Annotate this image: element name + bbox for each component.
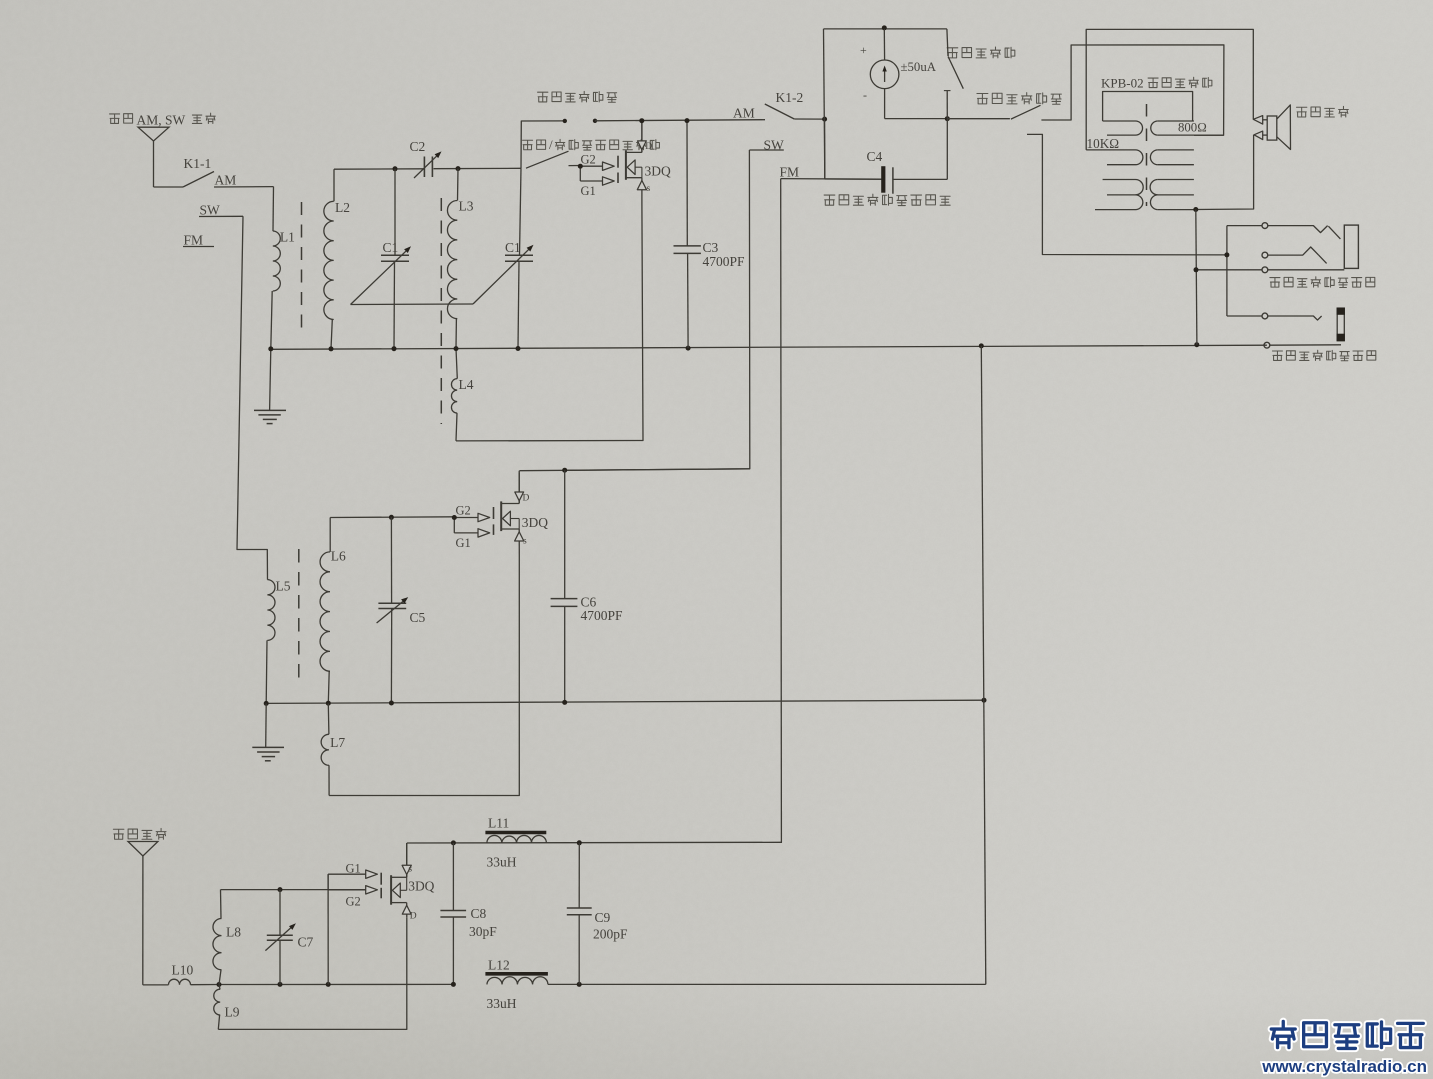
svg-text:10KΩ: 10KΩ: [1087, 136, 1120, 151]
capacitor C1 (b, tuning gang): [473, 168, 534, 348]
wire meter bottom: [885, 118, 948, 120]
wire SW band to L5: [237, 216, 268, 579]
transformer T1 top bracket: [1103, 92, 1193, 122]
svg-text:FM: FM: [184, 233, 204, 248]
wire switch contact to gates Q1: [569, 165, 581, 167]
node C3 top junction: [685, 118, 690, 123]
wire meter box top: [824, 28, 947, 30]
label telescopic antenna: [113, 828, 166, 839]
label nonpolar audio coupling cap: [824, 194, 950, 205]
wire L1 to ground bus: [271, 291, 272, 349]
wire AM to L1: [272, 187, 275, 231]
svg-text:G1: G1: [581, 184, 596, 198]
node C7 top junction: [278, 887, 283, 892]
inductor L6: [320, 518, 346, 704]
node bus junction x331: [329, 346, 334, 351]
wire Q2 drain line: [519, 469, 749, 471]
node stage2 ground junction x391: [389, 701, 394, 706]
node C8 bottom junction: [451, 982, 456, 987]
svg-text:G2: G2: [346, 895, 361, 909]
node bus junction x1196: [1194, 342, 1199, 347]
inductor L10: [169, 963, 194, 985]
wire output switch lower contact to jacks: [1027, 134, 1227, 255]
svg-text:33uH: 33uH: [487, 996, 517, 1011]
svg-text:4700PF: 4700PF: [703, 254, 746, 269]
node bus junction x688: [686, 346, 691, 351]
jack J2 earphone: [1268, 308, 1345, 342]
wire jack2 feed: [1227, 315, 1262, 317]
node secondary bottom junction: [1193, 207, 1198, 212]
watermark crystalradio logo: [1271, 1021, 1423, 1048]
svg-text:SW: SW: [200, 203, 221, 218]
wire G1 to ground: [327, 874, 329, 984]
node jack feed junction: [1224, 252, 1229, 257]
svg-text:FM: FM: [780, 165, 800, 180]
inductor L9: [214, 985, 240, 1030]
wire L6 top to gates Q2: [330, 516, 455, 519]
node meter top junction: [882, 25, 887, 30]
watermark url: [1261, 1057, 1427, 1076]
wire bus to earphone jack: [1270, 344, 1341, 346]
label external crystal interface: [538, 91, 617, 102]
svg-text:K1-1: K1-1: [184, 156, 212, 171]
wire meter box left: [824, 29, 825, 179]
svg-text:L7: L7: [330, 735, 345, 750]
svg-text:L3: L3: [459, 199, 474, 214]
wire jack1 sleeve feed: [1196, 269, 1262, 271]
transistor Q1 3DQ: [578, 121, 671, 203]
inductor L12: [485, 958, 548, 1012]
node junction C1a top: [393, 166, 398, 171]
svg-text:L8: L8: [226, 925, 241, 940]
label external active speaker jack: [1270, 277, 1375, 288]
wire stage2 ground line: [266, 700, 984, 703]
wire L12 to output vertical: [548, 983, 986, 985]
svg-text:K1-2: K1-2: [776, 90, 804, 105]
node FM contact K1-1: [183, 233, 214, 248]
wire main ground bus: [271, 345, 1267, 349]
wire transformer outline loop lower: [1196, 135, 1254, 210]
node C8 top junction: [451, 840, 456, 845]
wire Q2 source to L7 tap: [329, 555, 519, 796]
node SW contact K1-2: [749, 138, 784, 153]
svg-text:C1: C1: [383, 240, 399, 255]
capacitor C4: [825, 119, 948, 194]
transistor Q3 3DQ: [328, 843, 435, 922]
inductor L1: [273, 230, 295, 292]
node C7 bottom junction: [278, 982, 283, 987]
wire antenna to L10: [143, 984, 169, 986]
svg-text:3DQ: 3DQ: [645, 164, 671, 179]
capacitor C9: [567, 843, 628, 985]
wire jack feed vertical: [1226, 226, 1228, 316]
svg-text:s: s: [408, 865, 412, 875]
node C5 top junction: [389, 515, 394, 520]
inductor L3: [447, 169, 473, 349]
node meter output junction: [945, 116, 950, 121]
wire antenna to switch: [154, 186, 184, 188]
wire tank to AM output line: [521, 121, 565, 168]
switch K1-2 arm: [765, 104, 825, 119]
inductor L8: [213, 890, 241, 985]
wire meter to output switch: [947, 118, 1010, 120]
svg-text:33uH: 33uH: [487, 855, 517, 870]
wire tank top line right: [434, 167, 522, 169]
capacitor C3: [674, 121, 746, 349]
antenna ANT1: [138, 127, 169, 187]
wire L4 bottom to Q1 source: [456, 203, 643, 441]
node K1-2 common junction: [822, 117, 827, 122]
core dash line L1/L2: [301, 202, 303, 333]
svg-text:+: +: [860, 43, 867, 57]
node bus junction x981: [979, 343, 984, 348]
svg-text:L2: L2: [335, 200, 350, 215]
speaker LS1: [1253, 105, 1290, 150]
node bus junction x456: [454, 346, 459, 351]
svg-text:G1: G1: [456, 536, 471, 550]
node bus junction x270: [268, 346, 273, 351]
capacitor C6: [551, 470, 623, 702]
wire AM output line: [595, 120, 765, 121]
node bus junction x518: [516, 346, 521, 351]
antenna ANT2: [128, 842, 158, 985]
svg-text:3DQ: 3DQ: [522, 515, 548, 530]
svg-text:C1: C1: [505, 240, 521, 255]
wire tuning gang link: [351, 303, 474, 306]
node external crystal terminal left: [563, 119, 567, 123]
label output switch: [977, 93, 1061, 105]
transformer T1 core: [1146, 104, 1148, 206]
wire stage3 top line: [407, 841, 782, 844]
svg-text:D: D: [645, 142, 652, 152]
node stage2 ground junction x564: [562, 700, 567, 705]
node C9 top junction: [577, 840, 582, 845]
svg-text:C2: C2: [410, 139, 426, 154]
wire FM line down to stage3: [780, 179, 783, 843]
svg-text:AM: AM: [215, 173, 237, 188]
svg-text:G1: G1: [346, 862, 361, 876]
svg-text:AM, SW: AM, SW: [137, 113, 186, 128]
wire tank top line left: [334, 168, 424, 170]
node bus junction x394: [392, 346, 397, 351]
wire stage3 bottom line: [219, 983, 453, 985]
node C9 bottom junction: [577, 982, 582, 987]
label outdoor AM SW antenna: [110, 113, 216, 128]
transformer T1 secondary winding 800ohm: [1150, 121, 1223, 210]
svg-text:L11: L11: [488, 816, 509, 831]
label external reed earphone jack: [1272, 350, 1375, 361]
node L8 bottom junction: [217, 982, 222, 987]
node stage2 ground junction x328: [326, 701, 331, 706]
svg-text:C8: C8: [471, 906, 487, 921]
svg-text:4700PF: 4700PF: [581, 608, 624, 623]
wire L9 to Q3 drain: [218, 917, 406, 1029]
label meter switch: [947, 47, 1015, 58]
svg-text:L9: L9: [225, 1005, 240, 1020]
label KPB-02 impedance transformer: [1101, 76, 1212, 91]
node sleeve junction: [1194, 267, 1199, 272]
capacitor C8: [440, 843, 497, 985]
wire stage3 tank top: [221, 889, 370, 891]
wire L5 to ground: [265, 640, 268, 703]
wire stage23 vertical to bus: [981, 346, 986, 985]
svg-text:/: /: [549, 137, 553, 152]
svg-text:s: s: [647, 184, 651, 194]
node FM contact K1-2: [780, 165, 882, 180]
capacitor C1 (a, tuning gang): [351, 169, 412, 349]
svg-text:30pF: 30pF: [469, 924, 497, 939]
inductor L11: [485, 816, 546, 870]
svg-text:3DQ: 3DQ: [408, 879, 434, 894]
wire transformer outline loop: [1086, 29, 1253, 149]
svg-text:s: s: [523, 537, 527, 547]
transistor Q2 3DQ: [452, 471, 548, 555]
svg-text:L1: L1: [280, 230, 295, 245]
svg-text:C5: C5: [410, 610, 426, 625]
ground stage2: [252, 703, 284, 760]
svg-text:C3: C3: [703, 240, 719, 255]
inductor L4: [451, 349, 473, 441]
inductor L7: [321, 703, 345, 795]
svg-text:±50uA: ±50uA: [901, 60, 937, 74]
svg-text:C4: C4: [867, 149, 883, 164]
label reed speaker: [1296, 106, 1348, 117]
meter M1 +-50uA: [860, 29, 937, 119]
node AM contact K1-1: [214, 173, 274, 188]
inductor L2: [324, 169, 350, 349]
inductor L5: [267, 579, 290, 641]
capacitor C2: [410, 139, 442, 178]
svg-text:G2: G2: [581, 153, 596, 167]
node junction L3 top: [456, 166, 461, 171]
svg-text:-: -: [863, 88, 867, 102]
svg-text:D: D: [410, 912, 417, 922]
switch output select arm: [1011, 105, 1041, 119]
node external crystal terminal right: [593, 119, 597, 123]
svg-text:800Ω: 800Ω: [1178, 121, 1207, 135]
svg-text:200pF: 200pF: [593, 927, 628, 942]
jack J1 active speaker: [1268, 225, 1359, 270]
svg-text:KPB-02: KPB-02: [1101, 76, 1144, 91]
switch K1-1 arm: [183, 172, 214, 188]
svg-text:L10: L10: [172, 963, 194, 978]
wire L10 to tank: [191, 984, 220, 986]
svg-text:L6: L6: [331, 549, 346, 564]
label internal/external crystal switch: [523, 137, 660, 152]
terminal circles jack1: [1262, 223, 1268, 273]
wire K1-2 common down: [824, 119, 826, 179]
svg-text:www.crystalradio.cn: www.crystalradio.cn: [1261, 1057, 1427, 1076]
terminal circles jack2: [1262, 313, 1270, 348]
switch meter bypass: [944, 29, 963, 119]
svg-text:L4: L4: [459, 377, 474, 392]
svg-text:D: D: [523, 494, 530, 504]
capacitor C7 variable: [265, 890, 313, 985]
core dash line L3/L4: [440, 198, 442, 424]
svg-text:AM: AM: [733, 106, 755, 121]
svg-text:C9: C9: [595, 910, 611, 925]
node stage2 ground junction x266: [264, 701, 269, 706]
svg-text:L5: L5: [276, 579, 291, 594]
ground stage1: [254, 349, 286, 424]
svg-text:G2: G2: [456, 504, 471, 518]
transformer T1 primary winding 10K: [1086, 121, 1143, 210]
node C6 top junction: [562, 468, 567, 473]
core dash line L5/L6: [298, 549, 300, 685]
switch internal/external crystal arm: [526, 151, 569, 168]
svg-text:C7: C7: [298, 935, 314, 950]
svg-text:L12: L12: [488, 958, 510, 973]
wire output switch to transformer: [1041, 45, 1224, 135]
wire transformer to jack sleeve: [1196, 210, 1197, 345]
node SW contact K1-1: [199, 203, 243, 218]
capacitor C5 variable: [377, 517, 426, 703]
wire SW to stage2 drain: [565, 150, 750, 470]
node Q1 drain junction: [639, 118, 644, 123]
node stage2 ground junction x984: [982, 698, 987, 703]
wire jack feed top: [1227, 225, 1262, 227]
node G1 ground junction: [326, 982, 331, 987]
